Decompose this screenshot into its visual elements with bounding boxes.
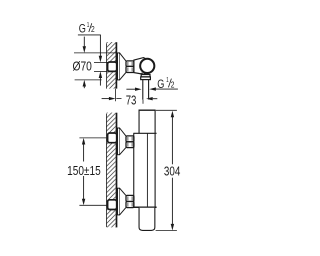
escutcheon base (top view) [118, 53, 120, 80]
union nut stack upper (bottom view) [126, 136, 134, 142]
svg-text:304: 304 [164, 164, 180, 179]
dimension ext line escutcheon top (O70 top) [74, 52, 117, 54]
leader underline G1/2 top [78, 34, 101, 36]
outlet collar ring upper [141, 75, 150, 77]
escutcheon cone lower (bottom view) [120, 188, 126, 215]
outlet pipe right line [148, 80, 150, 100]
dimension ext line nut bottom [94, 70, 108, 72]
body left line upper [138, 110, 140, 133]
thermostat handle circle (top view) [140, 59, 154, 73]
outlet pipe center extension [142, 100, 144, 104]
wall back line (top view) [106, 44, 108, 89]
dimension O70 lower shaft [83, 86, 85, 88]
wall union nut (top view) [108, 62, 117, 71]
union nut stack lower (bottom view) [126, 195, 134, 201]
leader tail below nut [99, 78, 101, 86]
label G1/2 (top-left) [79, 20, 95, 36]
dimension O70 arrow up [83, 80, 86, 87]
dimension O70 upper shaft [83, 37, 85, 47]
svg-text:150±15: 150±15 [67, 164, 101, 178]
body shelf lower [133, 206, 156, 208]
escutcheon cone upper (bottom view) [120, 128, 126, 155]
dimension O70 arrow down [83, 46, 86, 53]
escutcheon cone (top view) [120, 53, 126, 80]
dimension ext line escutcheon bottom (O70 bottom) [75, 79, 102, 81]
union nut lower half (top view) [126, 66, 134, 72]
union nut upper half (top view) [126, 61, 134, 67]
union nut facet lines (top view) [127, 62, 129, 66]
dimension ext line nut top [94, 61, 108, 63]
dimension 73 left arrow [102, 98, 110, 100]
outlet pipe left line [142, 80, 144, 100]
wall union nut upper (bottom view) [108, 133, 117, 143]
svg-text:G: G [79, 22, 86, 36]
svg-text:2: 2 [91, 25, 95, 34]
svg-text:Ø70: Ø70 [73, 59, 92, 73]
outlet collar ring lower [141, 77, 151, 80]
dimension 73 stub [116, 98, 121, 100]
wall surface line (bottom view) [116, 113, 118, 228]
dimension ext line 304 top [156, 109, 177, 111]
body right line [154, 110, 156, 207]
wall hatching (bottom view) [106, 113, 115, 228]
leader arrow down to nut top [99, 56, 102, 63]
label G1/2 (right) [157, 75, 175, 91]
G1/2 arrow right of pipe [149, 87, 156, 90]
svg-text:2: 2 [171, 80, 175, 89]
body shelf upper [133, 132, 156, 134]
body inner line [146, 133, 148, 207]
valve body wedge (top view) [134, 58, 147, 75]
escutcheon base upper (bottom view) [118, 128, 120, 155]
dimension 150+-15 [82, 138, 85, 145]
wall extension line below wall [115, 89, 117, 102]
leader arrow up to nut bottom [99, 71, 102, 78]
dimension ext line 150 upper [79, 137, 107, 139]
G1/2 pinch arrow left of pipe [126, 88, 135, 90]
body top edge [139, 109, 156, 111]
svg-text:73: 73 [126, 93, 137, 108]
outlet neck [141, 73, 143, 75]
dimension 304 [171, 111, 174, 118]
leader vertical G1/2 top [99, 35, 101, 56]
body bottom cup [139, 208, 155, 231]
dimension 73 right arrow [146, 97, 153, 100]
dimension ext line 150 lower [79, 204, 107, 206]
leader underline G1/2 right [156, 88, 178, 90]
escutcheon base lower (bottom view) [118, 188, 120, 215]
body plate left line [133, 133, 135, 207]
wall back line (bottom view) [106, 114, 108, 227]
wall hatching (top view) [106, 42, 115, 89]
svg-text:1: 1 [87, 20, 90, 29]
svg-text:1: 1 [166, 75, 169, 84]
wall surface line (top view) [115, 42, 117, 88]
dimension ext line 304 bottom [156, 230, 177, 232]
wall union nut lower (bottom view) [108, 200, 117, 210]
svg-text:G: G [157, 77, 164, 91]
